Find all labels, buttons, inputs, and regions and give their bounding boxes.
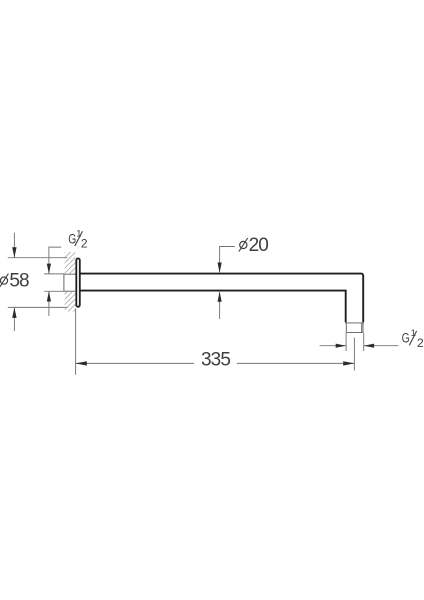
svg-text:58: 58 [9, 270, 29, 291]
arrowhead right at centerline [343, 361, 354, 365]
tube bottom+inner outline [81, 291, 346, 323]
arrowhead left at wall [76, 361, 87, 365]
dimension o20 leader [220, 247, 235, 319]
G1/2 right dimension lines [320, 345, 399, 347]
tube centerline extension down [353, 338, 355, 371]
arrowhead up at thread bottom [47, 291, 51, 301]
label G1/2 left [68, 229, 88, 251]
dimension o58 extension bottom [8, 306, 68, 308]
arrowhead up at o58 bottom [12, 308, 16, 318]
label G1/2 right [402, 328, 424, 350]
thread G1/2 wall-side (white box over hatch) [64, 274, 76, 291]
o58 dimension lines [13, 233, 15, 331]
svg-text:2: 2 [417, 336, 424, 350]
label o20 [239, 235, 268, 256]
extension line thread top [44, 273, 64, 275]
extension line thread bottom [44, 290, 64, 292]
svg-text:335: 335 [201, 350, 230, 371]
wall hatching [65, 252, 76, 312]
svg-text:20: 20 [249, 235, 269, 256]
label o58 [0, 270, 29, 291]
svg-text:G: G [402, 330, 410, 346]
335 dimension line [76, 362, 354, 364]
dimension G1/2 left leader [49, 247, 61, 316]
arrowhead left pointing at right ext [364, 344, 374, 348]
arrowhead down at o58 top [12, 247, 16, 257]
arrowhead down at tube top [218, 263, 222, 273]
arrowhead right pointing at left ext [336, 344, 346, 348]
dimension o58 extension top [8, 257, 68, 259]
shower arm tube top+right outline [81, 274, 364, 323]
flange [76, 258, 80, 306]
G1/2 right extension lines [346, 333, 364, 351]
arrowhead down at thread top [47, 264, 51, 274]
arrowhead up at tube bottom [218, 292, 222, 302]
tube end thread section [345, 323, 364, 333]
svg-text:2: 2 [81, 236, 88, 250]
wall face extension line down [75, 309, 77, 375]
